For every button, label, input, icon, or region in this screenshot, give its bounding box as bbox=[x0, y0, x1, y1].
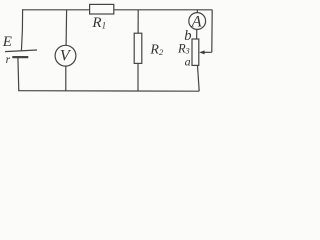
wire: wiper drop from top-right corner bbox=[211, 10, 213, 53]
wire: right branch lower (bottom corner up to R3) bbox=[198, 65, 200, 91]
wire: stub ammeter to R3 (node b) bbox=[196, 29, 198, 39]
wiper arrowhead bbox=[199, 50, 204, 54]
battery E,r: long plate bbox=[5, 50, 37, 52]
wire: R2 branch lower bbox=[137, 63, 139, 91]
svg-text:a: a bbox=[185, 55, 191, 69]
wire: ammeter stub from top wire bbox=[196, 10, 198, 13]
battery E,r: short thick plate bbox=[12, 56, 28, 58]
wire: voltmeter branch upper bbox=[65, 10, 68, 46]
svg-text:r: r bbox=[6, 54, 11, 66]
rheostat R3 (vertical box) bbox=[192, 39, 199, 65]
wire: R2 branch upper bbox=[137, 10, 139, 34]
svg-text:E: E bbox=[2, 34, 12, 50]
svg-text:A: A bbox=[191, 14, 202, 31]
wire: top horizontal bbox=[23, 9, 213, 11]
wiper arrow shaft bbox=[204, 51, 212, 53]
resistor R1 (box on top wire) bbox=[90, 4, 114, 14]
wire: bottom horizontal bbox=[18, 90, 199, 93]
voltmeter V circle bbox=[55, 45, 76, 66]
svg-text:b: b bbox=[184, 28, 191, 44]
wire: left branch upper (to battery) bbox=[21, 9, 22, 51]
wire: left branch lower bbox=[17, 57, 20, 91]
resistor R2 (vertical box) bbox=[134, 33, 142, 63]
wire: voltmeter branch lower bbox=[65, 66, 67, 91]
ammeter A circle bbox=[189, 13, 206, 30]
